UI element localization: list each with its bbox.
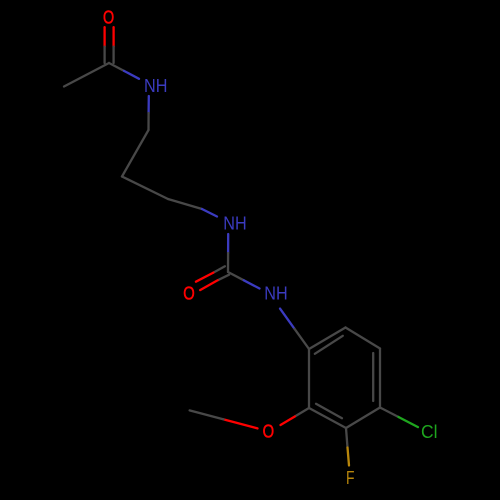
carbonyl O1=C1 double bond (acetyl)	[105, 27, 114, 63]
svg-text:NH: NH	[264, 284, 287, 304]
bond C2-C3	[122, 130, 149, 177]
bond D-F	[346, 428, 349, 466]
bond C1-N1	[109, 63, 139, 79]
bond C3-C4	[122, 177, 168, 200]
bond N2-C5	[227, 234, 229, 272]
benzene ring outline	[309, 328, 380, 429]
acetyl methyl bond C1-CH3	[64, 63, 109, 87]
ring inner double line TL-A	[315, 336, 343, 354]
ring edge TR-BR	[379, 349, 381, 408]
svg-text:NH: NH	[144, 76, 167, 96]
svg-text:NH: NH	[223, 213, 246, 233]
bond C5-N3	[228, 272, 260, 289]
ring edge TL-A	[309, 328, 346, 350]
bond C4-N2	[168, 199, 217, 217]
svg-text:O: O	[183, 284, 195, 304]
ring inner double line TR-BR	[372, 353, 374, 401]
bond BR-Cl	[380, 408, 418, 428]
bond BL-O3 (ether)	[281, 408, 310, 425]
ring edge D-BL	[309, 408, 346, 428]
ring edge BL-TL	[308, 349, 310, 408]
ring inner double line D-BL	[316, 404, 342, 418]
urea C5=O2 double bond	[196, 266, 229, 290]
bond N1-C2	[147, 96, 150, 130]
bond N3-ring TL	[280, 309, 309, 349]
svg-text:F: F	[346, 468, 355, 488]
svg-text:O: O	[263, 422, 275, 442]
svg-text:O: O	[103, 7, 114, 27]
svg-text:Cl: Cl	[421, 422, 438, 442]
ring edge BR-D	[346, 408, 380, 429]
ring edge A-TR	[346, 328, 381, 349]
bond O3-CH3 (methoxy methyl)	[190, 410, 258, 428]
